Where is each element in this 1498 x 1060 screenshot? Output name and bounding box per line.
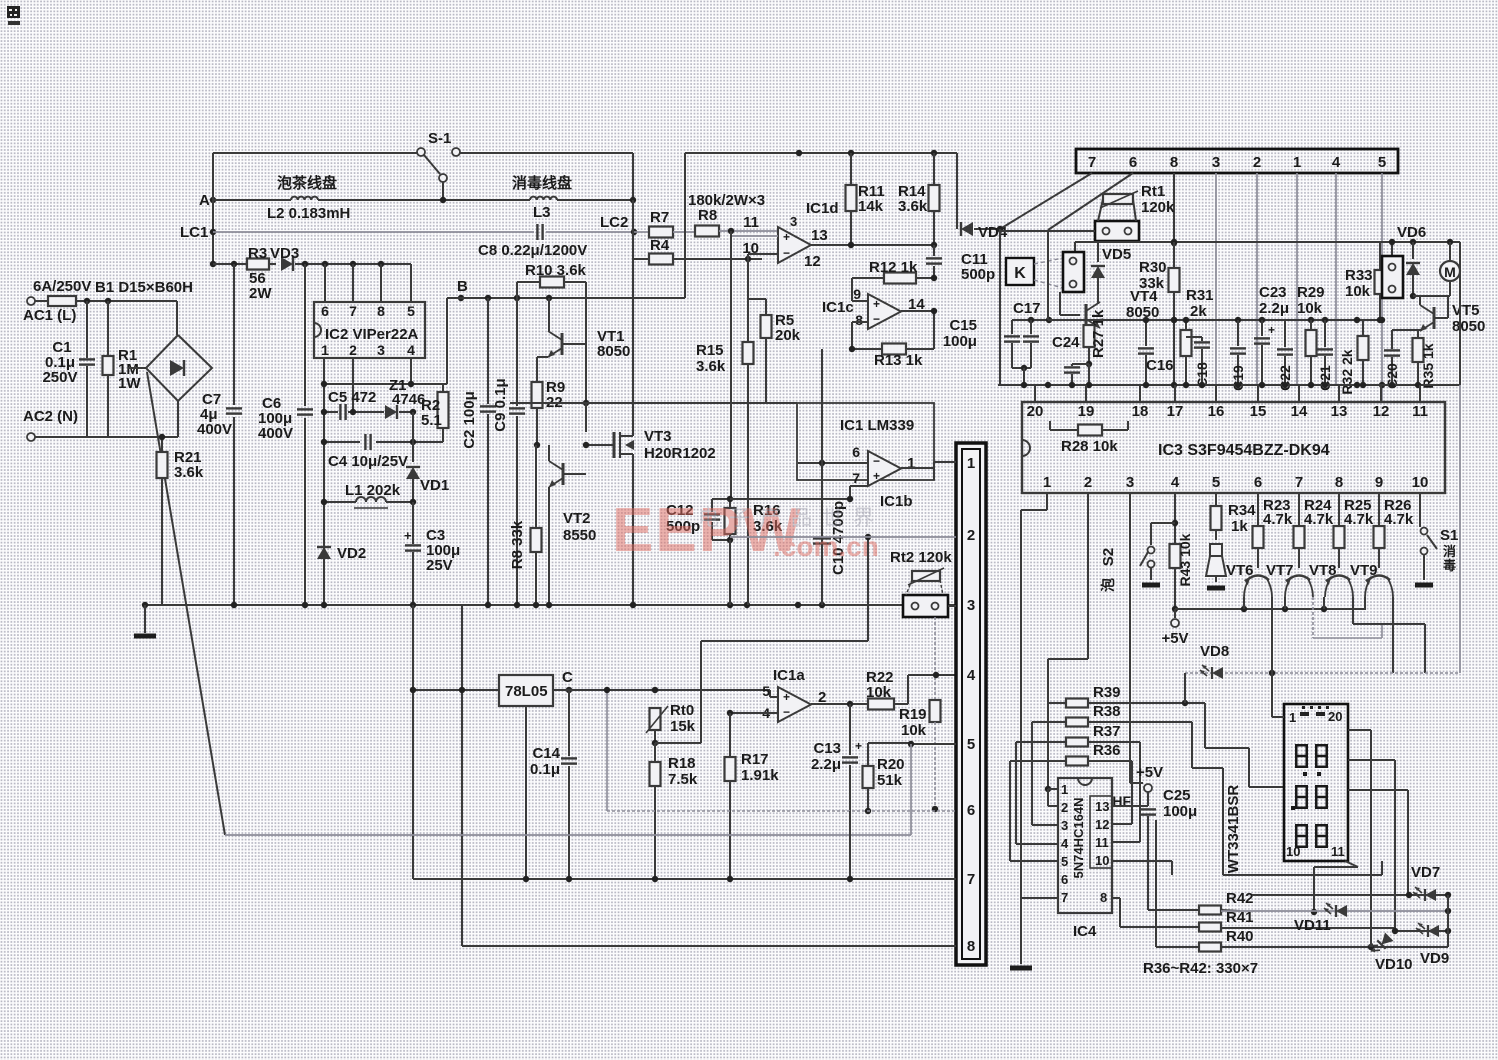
svg-text:8: 8 [855, 312, 863, 328]
emitter rail y609 [1175, 606, 1366, 612]
svg-text:C13: C13 [813, 740, 841, 757]
display digit 1b [1315, 744, 1328, 768]
top rail right [459, 152, 633, 154]
IC3 pin9 wire [1378, 493, 1380, 526]
IC4 left wires [1010, 722, 1058, 898]
svg-text:R30: R30 [1139, 259, 1167, 276]
wire C3 node down [412, 605, 414, 879]
svg-text:−: − [873, 312, 880, 326]
svg-text:14: 14 [1291, 403, 1308, 420]
svg-text:10k: 10k [1297, 300, 1323, 317]
svg-text:R18: R18 [668, 755, 696, 772]
wire x1448 [1447, 895, 1449, 947]
C12 top node wire [730, 496, 853, 502]
IC3 pin10 wire [1419, 493, 1421, 527]
connector pin 7 [967, 871, 975, 888]
node R9 out line [583, 400, 589, 406]
svg-text:R27 1k: R27 1k [1090, 309, 1107, 358]
wire to pin5 [908, 741, 956, 747]
svg-text:2: 2 [1061, 800, 1068, 815]
svg-text:VT8: VT8 [1309, 562, 1337, 579]
vertical A-LC1 left [212, 153, 214, 264]
resistor R19 body [930, 700, 941, 812]
IC3 top pin numbers [1027, 403, 1428, 420]
svg-text:R40: R40 [1226, 928, 1254, 945]
label R36-R42 [1143, 960, 1258, 977]
label LC2 [600, 214, 628, 231]
svg-text:VT2: VT2 [563, 510, 591, 527]
LED VD9 line [1392, 928, 1451, 934]
wire 78L05 bottom [525, 706, 527, 879]
IC2 bottom pin numbers [321, 342, 415, 358]
svg-text:8550: 8550 [563, 527, 596, 544]
capacitor C10 [813, 501, 847, 575]
wire VT3 collector [632, 298, 634, 420]
svg-text:3.6k: 3.6k [898, 198, 928, 215]
IC1b out [901, 468, 934, 480]
page corner icon [7, 6, 20, 25]
op-amp IC1d [742, 200, 838, 270]
plus5V below pin4 [1161, 609, 1188, 647]
svg-text:1k: 1k [1231, 518, 1248, 535]
connector pin 8 [967, 938, 975, 955]
resistor R25 [1334, 497, 1374, 568]
svg-text:+: + [1268, 323, 1275, 337]
LED VD8 line [1185, 643, 1460, 676]
svg-text:VT6: VT6 [1226, 562, 1254, 579]
transistor VT7 [1266, 562, 1313, 597]
svg-text:L3: L3 [533, 204, 551, 221]
inductor L1 [321, 482, 416, 508]
wire to pin2 [730, 536, 956, 538]
svg-text:2: 2 [1084, 474, 1092, 491]
label R19 [899, 706, 927, 739]
label 180k/2W×3 [688, 192, 765, 209]
svg-text:R3: R3 [248, 245, 267, 262]
svg-text:C5 472: C5 472 [328, 389, 376, 406]
capacitor C22 [1277, 320, 1293, 391]
wire VD4 to Rt1 [1000, 229, 1095, 231]
resistor R26 [1374, 497, 1414, 568]
svg-text:L2 0.183mH: L2 0.183mH [267, 205, 350, 222]
capacitor C12 [666, 499, 730, 540]
LED VD11 line [1221, 908, 1451, 914]
IC3 pin8 wire [1338, 493, 1340, 526]
wire AC1 to bridge [76, 298, 177, 304]
svg-text:3: 3 [1212, 154, 1220, 171]
svg-text:毒: 毒 [1443, 558, 1456, 573]
svg-text:消毒线盘: 消毒线盘 [512, 174, 572, 192]
svg-text:C16: C16 [1146, 357, 1174, 374]
svg-text:3.6k: 3.6k [174, 464, 204, 481]
display digit 2b [1315, 785, 1328, 809]
resistor R35 [1413, 330, 1437, 389]
wire rail to x1460 [1459, 242, 1461, 385]
wire x730 divider [730, 231, 732, 499]
IC4 gnd [1010, 898, 1032, 968]
svg-text:R15: R15 [696, 342, 724, 359]
svg-text:VD8: VD8 [1200, 643, 1229, 660]
label C8 0.22μ/1200V [478, 242, 587, 259]
IC3 pin3 wire [1130, 493, 1143, 783]
svg-text:7: 7 [1061, 890, 1068, 905]
svg-text:−: − [783, 705, 790, 719]
svg-text:11: 11 [743, 214, 759, 231]
svg-text:3: 3 [1126, 474, 1134, 491]
node C5 line [321, 409, 416, 415]
thermistor Rt2 [890, 549, 952, 617]
svg-text:6: 6 [967, 802, 975, 819]
IC3 pin6 wire [1257, 493, 1259, 526]
node R3 left [210, 261, 216, 267]
svg-text:25V: 25V [426, 557, 453, 574]
IC3 pin5 wire [1215, 493, 1217, 506]
svg-text:0.1μ: 0.1μ [530, 761, 560, 778]
resistor R5 [761, 299, 801, 403]
svg-text:2.2μ: 2.2μ [811, 756, 841, 773]
transistor VT8 [1309, 562, 1353, 597]
display top segs [1300, 706, 1329, 716]
wire pin9 [852, 278, 868, 301]
svg-text:1.91k: 1.91k [741, 767, 779, 784]
node C [566, 687, 572, 693]
IC3 pin4 wire [1172, 493, 1178, 612]
svg-text:R19: R19 [899, 706, 927, 723]
svg-text:8: 8 [1170, 154, 1178, 171]
label 消毒线盘 [512, 174, 572, 192]
resistor R2 [413, 384, 449, 442]
line y384 R2 top [321, 381, 443, 387]
svg-text:VD3: VD3 [270, 245, 299, 262]
rail y385 [998, 382, 1460, 388]
svg-text:R32 2k: R32 2k [1339, 349, 1355, 394]
wire R5 top [748, 259, 766, 299]
watermark EEPW [612, 496, 884, 565]
svg-text:L1 202k: L1 202k [345, 482, 401, 499]
svg-text:C25: C25 [1163, 787, 1191, 804]
vertical x633 down [632, 200, 634, 298]
svg-text:VD1: VD1 [420, 477, 449, 494]
line A with L2 [213, 197, 636, 204]
svg-text:R20: R20 [877, 756, 905, 773]
speaker HA [1206, 544, 1226, 588]
svg-text:11: 11 [1412, 403, 1428, 420]
resistor R42 [1148, 830, 1254, 915]
wire to pin3 [948, 605, 956, 607]
svg-text:7: 7 [349, 303, 357, 319]
diode VD6 [1406, 242, 1420, 299]
svg-text:IC3 S3F9454BZZ-DK94: IC3 S3F9454BZZ-DK94 [1158, 442, 1330, 459]
svg-text:B: B [457, 278, 468, 295]
nodes on R3 line [231, 261, 384, 267]
svg-text:C24: C24 [1052, 334, 1080, 351]
svg-text:VD11: VD11 [1294, 917, 1331, 934]
svg-text:R36~R42: 330×7: R36~R42: 330×7 [1143, 960, 1258, 977]
resistor R40 [1156, 820, 1448, 952]
svg-text:120k: 120k [1141, 199, 1175, 216]
label WT3341BSR [1225, 785, 1242, 874]
capacitor C24 [1052, 334, 1089, 385]
IC3 label [1158, 442, 1330, 459]
svg-text:1: 1 [1289, 710, 1296, 725]
IC2 pin8 wire [380, 264, 382, 302]
svg-text:LC1: LC1 [180, 224, 208, 241]
display corner pins [1286, 709, 1345, 859]
svg-text:5: 5 [967, 736, 975, 753]
svg-text:VT9: VT9 [1350, 562, 1378, 579]
svg-text:A: A [199, 192, 210, 209]
IC2 pin6 wire [324, 264, 326, 302]
resistor R11 [846, 153, 885, 245]
svg-text:4.7k: 4.7k [1304, 511, 1334, 528]
Rt1 terminal box [1095, 199, 1139, 241]
svg-text:K: K [1014, 265, 1026, 282]
svg-text:20: 20 [1328, 709, 1342, 724]
wire pin6 line [798, 460, 868, 466]
svg-text:+5V: +5V [1161, 630, 1188, 647]
ground symbol [134, 605, 156, 636]
wire R4 to pin10 [748, 254, 778, 259]
svg-text:100μ: 100μ [943, 333, 977, 350]
svg-text:2: 2 [349, 342, 357, 358]
svg-text:VD7: VD7 [1411, 864, 1440, 881]
svg-text:4: 4 [1061, 836, 1069, 851]
svg-text:7: 7 [1295, 474, 1303, 491]
svg-text:消: 消 [1443, 544, 1456, 559]
VD6 terminal box [1382, 224, 1426, 298]
rail y153 mid [685, 150, 957, 156]
resistor R4 [633, 237, 762, 265]
svg-text:500p: 500p [961, 266, 995, 283]
svg-text:+: + [873, 297, 880, 311]
label AC1 [23, 307, 76, 324]
svg-text:泡: 泡 [1100, 578, 1116, 592]
label L3 [533, 204, 551, 221]
IC4 inner box [1090, 796, 1112, 868]
svg-text:IC1d: IC1d [806, 200, 839, 217]
svg-text:33k: 33k [1139, 275, 1165, 292]
resistor R43 [1170, 533, 1194, 586]
diode VD4 [957, 153, 1008, 241]
svg-text:R8: R8 [698, 207, 717, 224]
capacitor C19 [1230, 320, 1246, 391]
svg-text:12: 12 [1095, 817, 1109, 832]
switch S-1 [417, 130, 460, 200]
wire y835 long [225, 744, 911, 835]
svg-text:3: 3 [1061, 818, 1068, 833]
display digit 2a [1295, 785, 1308, 809]
resistor R21 [157, 434, 204, 605]
LED VD8 [1200, 665, 1223, 679]
svg-text:IC1b: IC1b [880, 493, 913, 510]
AC2 terminal [27, 433, 35, 441]
svg-text:2W: 2W [249, 285, 272, 302]
svg-text:4.7k: 4.7k [1344, 511, 1374, 528]
fuse F1 [35, 296, 76, 306]
resistor R10 [517, 262, 587, 331]
resistor R8b 33k [509, 445, 542, 605]
display digit 3a [1295, 824, 1308, 848]
op-amp IC1c [822, 286, 925, 329]
svg-text:AC1 (L): AC1 (L) [23, 307, 76, 324]
connector pin 4 [967, 667, 976, 684]
svg-text:3: 3 [967, 597, 975, 614]
svg-text:电子产品世界: 电子产品世界 [698, 507, 884, 530]
svg-text:C9 0.1μ: C9 0.1μ [492, 378, 509, 431]
svg-text:17: 17 [1167, 403, 1184, 420]
svg-text:VT7: VT7 [1266, 562, 1294, 579]
svg-text:C4 10μ/25V: C4 10μ/25V [328, 453, 408, 470]
wire pin2 down [1256, 173, 1258, 385]
svg-text:C2 100μ: C2 100μ [461, 391, 478, 449]
resistor R24 [1294, 497, 1334, 568]
capacitor C1 [42, 301, 95, 437]
wire x462 down [461, 605, 463, 946]
transistor VT2 [549, 445, 596, 605]
svg-text:18: 18 [1132, 403, 1149, 420]
svg-text:Rt0: Rt0 [670, 702, 694, 719]
svg-text:4: 4 [1332, 154, 1341, 171]
bridge rectifier B1 [146, 335, 212, 401]
svg-text:M: M [1444, 264, 1456, 280]
wire to pin8 [462, 945, 956, 947]
svg-text:+: + [873, 469, 880, 483]
AC1 terminal [27, 297, 35, 305]
svg-text:6: 6 [1129, 154, 1137, 171]
IC3 pin7 wire [1298, 493, 1300, 526]
svg-text:1: 1 [1293, 154, 1301, 171]
svg-text:100μ: 100μ [1163, 803, 1197, 820]
svg-text:15: 15 [1250, 403, 1267, 420]
diode VD1 [406, 412, 449, 502]
connector pin 6 [967, 802, 975, 819]
node B [458, 295, 464, 301]
svg-text:R8 33k: R8 33k [509, 520, 526, 569]
svg-text:R13 1k: R13 1k [874, 352, 923, 369]
line gate y403 [510, 402, 797, 404]
line B [447, 295, 685, 301]
resistor R32 [1339, 320, 1369, 395]
svg-text:VT5: VT5 [1452, 302, 1480, 319]
resistor R7 [634, 209, 695, 238]
svg-text:1W: 1W [118, 375, 141, 392]
svg-text:IC1c: IC1c [822, 299, 854, 316]
svg-text:C17: C17 [1013, 300, 1041, 317]
IC2 top pin numbers [321, 303, 415, 319]
LED VD7 [1411, 864, 1440, 901]
svg-text:13: 13 [811, 227, 828, 244]
label 泡茶线盘 [277, 174, 337, 192]
IC2 label [325, 326, 419, 343]
resistor R38 [1032, 703, 1382, 875]
transistor VT5 [1413, 296, 1485, 335]
svg-text:VT3: VT3 [644, 428, 672, 445]
wire x1000 down [999, 229, 1001, 385]
svg-text:15k: 15k [670, 718, 696, 735]
capacitor C17 [1013, 300, 1041, 368]
resistor R22 [866, 669, 957, 710]
svg-text:14k: 14k [858, 198, 884, 215]
svg-text:250V: 250V [42, 369, 77, 386]
resistor R20 [863, 743, 905, 814]
wire y638 [1313, 624, 1382, 638]
svg-text:−: − [783, 246, 790, 260]
resistor R27 [1084, 309, 1108, 367]
svg-text:10: 10 [1412, 474, 1429, 491]
capacitor C15 [943, 317, 1052, 368]
resistor R37 [1016, 723, 1140, 842]
connector pin 5 [967, 736, 975, 753]
svg-text:12: 12 [1373, 403, 1390, 420]
resistor R9 22 [532, 357, 566, 445]
svg-text:3: 3 [790, 214, 797, 229]
svg-text:IC1 LM339: IC1 LM339 [840, 417, 914, 434]
transistor VT9 [1350, 562, 1393, 597]
svg-text:S2: S2 [1100, 548, 1117, 566]
svg-text:12: 12 [804, 253, 821, 270]
svg-text:R42: R42 [1226, 890, 1254, 907]
capacitor C25 [1112, 787, 1197, 830]
svg-text:R34: R34 [1228, 502, 1256, 519]
wire pin8 [852, 322, 868, 349]
svg-text:+: + [855, 739, 862, 753]
wire pin5t down [1379, 173, 1385, 402]
capacitor C18 [1186, 337, 1210, 388]
capacitor C7 [197, 264, 242, 605]
label A [199, 192, 210, 209]
svg-text:+: + [404, 528, 412, 543]
label B1 D15×B60H [95, 279, 193, 296]
svg-text:20k: 20k [775, 327, 801, 344]
label C node [562, 669, 573, 686]
IC3 box [1022, 402, 1445, 493]
svg-text:7: 7 [967, 871, 975, 888]
transistor VT6 [1226, 562, 1272, 597]
IC4 pin2 wire [1048, 789, 1058, 806]
svg-text:10k: 10k [1345, 283, 1371, 300]
svg-text:C15: C15 [949, 317, 977, 334]
wire pin4t down [1335, 173, 1337, 385]
svg-text:+5V: +5V [1136, 764, 1163, 781]
IC3 pin2 wire [1048, 493, 1088, 789]
svg-text:AC2 (N): AC2 (N) [23, 408, 78, 425]
svg-text:R37: R37 [1093, 723, 1121, 740]
svg-text:C23: C23 [1259, 284, 1287, 301]
svg-text:8050: 8050 [1126, 304, 1159, 321]
top connector outline [1076, 149, 1398, 173]
IC4 pin numbers [1061, 782, 1109, 905]
wire Rt0 tap [655, 534, 871, 743]
node IC4 pin1 [1045, 786, 1058, 792]
wire VT2 base [534, 408, 586, 474]
svg-text:51k: 51k [877, 772, 903, 789]
capacitor C20 [1384, 330, 1400, 389]
node R4 out [745, 256, 751, 262]
capacitor C4 [321, 434, 416, 470]
wire pin8 down [1171, 173, 1177, 246]
label L2 0.183mH [267, 205, 350, 222]
resistor R14 [898, 153, 940, 245]
svg-text:1: 1 [907, 455, 915, 472]
svg-text:R33: R33 [1345, 267, 1373, 284]
svg-text:78L05: 78L05 [505, 683, 548, 700]
svg-text:9: 9 [1375, 474, 1383, 491]
svg-text:R12 1k: R12 1k [869, 259, 918, 276]
svg-text:+: + [783, 690, 790, 704]
transistor VT4 [1060, 288, 1159, 328]
motor M [1413, 242, 1460, 296]
wire pin3 down [1215, 173, 1217, 385]
